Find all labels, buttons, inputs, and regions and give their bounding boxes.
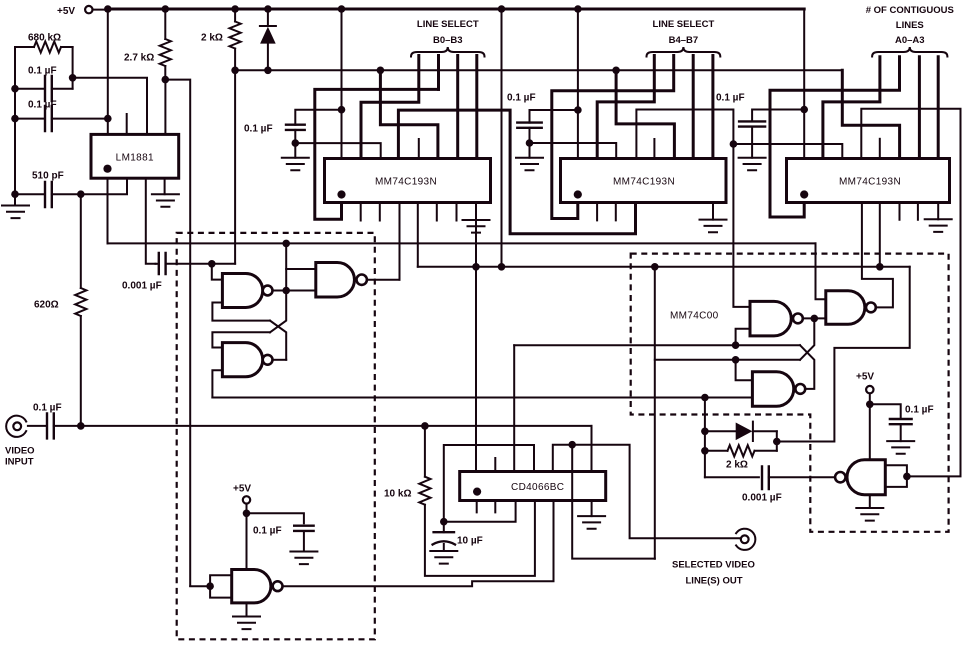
wire counter3 Q right edge <box>861 109 960 477</box>
ground bypass G7 <box>290 552 317 565</box>
wire counter3 pin to borrow <box>879 203 881 267</box>
pin counter1 stub top <box>418 139 420 159</box>
svg-text:A0–A3: A0–A3 <box>895 35 925 46</box>
capacitor C bypass1 <box>286 110 342 158</box>
wire G7 tied inputs <box>206 575 231 597</box>
wire loop1 B1 to pin <box>315 89 439 219</box>
wire ctl pins <box>440 445 534 526</box>
wire counter2 vcc drop <box>574 9 582 159</box>
ground bypass1 <box>282 158 309 171</box>
ground counter2 <box>700 220 727 233</box>
ic U5 CD4066BC <box>460 472 606 501</box>
capacitor C bypass G7 <box>247 513 314 551</box>
wire 2k-diode drop <box>234 70 236 263</box>
wire A3 line <box>937 57 940 159</box>
svg-text:INPUT: INPUT <box>5 457 34 468</box>
wire borrow line <box>418 203 910 267</box>
wire HA staircase 2 <box>612 67 674 159</box>
wire G3 input A <box>212 332 270 347</box>
capacitor 10uF label <box>457 536 483 547</box>
ground counter1 <box>463 220 490 233</box>
nand gate G7 <box>232 570 283 603</box>
svg-text:0.1 µF: 0.1 µF <box>905 405 934 416</box>
wire 2.7k junction right <box>165 80 190 586</box>
label LINE SELECT 2 <box>653 19 715 30</box>
wire G1 input A <box>212 264 223 280</box>
svg-text:0.001 µF: 0.001 µF <box>122 281 162 292</box>
capacitor 510 pF label <box>32 171 64 182</box>
wire sync bus HA <box>235 69 842 71</box>
capacitor C 10uF electrolytic <box>433 522 455 551</box>
ic U4 MM74C193N <box>787 159 950 203</box>
wire video to pin <box>591 426 593 472</box>
wire B7 line <box>711 56 714 159</box>
capacitor C 0.1uF A <box>15 76 73 101</box>
svg-text:LINE SELECT: LINE SELECT <box>417 19 479 30</box>
svg-text:CD4066BC: CD4066BC <box>511 482 564 493</box>
capacitor 0.1uF label G8 <box>905 405 934 416</box>
capacitor 0.001uF label B <box>742 493 782 504</box>
capacitor 0.1uF label B <box>28 100 57 111</box>
resistor R 10k <box>419 426 535 576</box>
wire G8 tied inputs <box>885 465 910 487</box>
bracket B4-B7 <box>647 47 721 57</box>
wire switch ctl drop <box>513 345 515 471</box>
pin LM1881 burst <box>146 178 156 264</box>
wire G5 input B <box>736 329 750 345</box>
svg-text:0.1 µF: 0.1 µF <box>716 93 745 104</box>
pin cd4066 stub top <box>494 458 496 472</box>
connector video output <box>736 529 755 550</box>
resistor 2 k&#937; label B <box>726 460 748 471</box>
svg-text:MM74C193N: MM74C193N <box>839 177 901 188</box>
wire G4 output <box>862 203 893 308</box>
label MM74C00 <box>670 311 719 322</box>
wire G7 input feed <box>190 585 210 587</box>
diode D2 <box>705 422 777 442</box>
wire G3 input B <box>212 370 222 397</box>
wire ctl feedback <box>572 445 655 559</box>
diode D1 <box>260 9 276 74</box>
wire rail drop x501 <box>501 9 503 267</box>
svg-text:LM1881: LM1881 <box>116 153 154 164</box>
wire G8 gnd <box>869 495 871 508</box>
wire G2 input A <box>286 268 316 270</box>
power +5V terminal right <box>856 372 874 405</box>
wire HA staircase 1 <box>377 67 438 159</box>
wire rlatch line upper <box>514 341 800 349</box>
wire B3 line <box>475 56 478 159</box>
capacitor 0.1uF label C3 <box>716 93 745 104</box>
ic U1 LM1881 <box>91 134 179 178</box>
resistor R 2.7k <box>160 9 171 83</box>
label LINES OUT <box>686 576 743 587</box>
svg-text:2 kΩ: 2 kΩ <box>726 460 748 471</box>
ground counter3 <box>925 219 952 232</box>
wire G7 gnd <box>246 603 248 617</box>
capacitor C bypass2 <box>517 110 578 158</box>
wire cd4066 gnd pin <box>591 501 593 517</box>
ground bypass2 <box>516 158 543 171</box>
wire to LM1881 pin <box>73 78 147 135</box>
svg-text:MM74C193N: MM74C193N <box>613 177 675 188</box>
svg-text:B0–B3: B0–B3 <box>433 35 463 46</box>
wire latch long line <box>212 394 752 402</box>
capacitor C 0.1uF B <box>15 106 112 131</box>
resistor 680 k&#937; label <box>28 33 61 44</box>
wire A0 line <box>823 57 880 159</box>
dashed box MM74C00 <box>631 254 949 532</box>
power +5V terminal bl <box>233 484 251 514</box>
pin cd4066 stubs bottom <box>477 501 496 513</box>
wire +5V rail <box>108 8 804 11</box>
dashed box latch left <box>177 233 375 639</box>
resistor 620&#937; label <box>34 300 59 311</box>
wire A2 line <box>918 57 921 159</box>
ground 10uF <box>430 551 457 564</box>
wire rail end drop <box>800 9 808 159</box>
wire G5 out to G4 <box>803 315 826 323</box>
wire 2.7k to LM1881 pin <box>164 80 166 135</box>
resistor 2 k&#937; label <box>201 33 223 44</box>
wire video line <box>77 422 592 430</box>
pin LM1881 top stub <box>126 114 128 134</box>
wire G6 input A <box>736 360 753 381</box>
capacitor 0.1uF label A <box>28 66 57 77</box>
svg-text:LINE(S) OUT: LINE(S) OUT <box>686 576 743 587</box>
wire LM1881 Vcc <box>107 9 109 134</box>
wire rlatch cross upper <box>800 318 814 359</box>
resistor R 680k <box>15 41 73 52</box>
wire latch cross upper <box>270 291 286 333</box>
wire G3 output <box>273 359 287 361</box>
svg-text:+5V: +5V <box>233 484 251 495</box>
resistor 10 k&#937; label <box>384 489 411 500</box>
wire G1 output <box>273 287 291 295</box>
capacitor C bypass3 <box>739 110 804 158</box>
wire left rail x15 <box>14 47 16 206</box>
capacitor 0.1uF label vid <box>33 403 62 414</box>
bracket B0-B3 <box>411 47 485 57</box>
svg-text:0.1 µF: 0.1 µF <box>253 526 282 537</box>
wire latch cross lower <box>270 321 286 360</box>
pin counter2 stub top <box>653 139 655 159</box>
label A0-A3 <box>895 35 925 46</box>
wire HA staircase 3 <box>842 70 899 158</box>
wire cap1 to pin <box>295 143 380 158</box>
svg-text:B4–B7: B4–B7 <box>669 35 699 46</box>
connector video input <box>6 416 26 437</box>
nand gate G6 <box>752 372 805 407</box>
ground left rail <box>2 206 29 219</box>
wire 510pF to LM1881 pin <box>81 178 127 194</box>
capacitor C 0.001uF B <box>705 467 835 490</box>
wire counter1 vcc drop <box>338 9 346 159</box>
svg-text:MM74C193N: MM74C193N <box>375 177 437 188</box>
ic U3 MM74C193N <box>561 159 727 203</box>
label CONTIGUOUS <box>866 5 954 16</box>
power +5V terminal <box>57 6 108 17</box>
wire B5 loop2 <box>552 56 674 219</box>
wire G2 input B <box>286 290 316 292</box>
bracket A0-A3 <box>872 47 947 57</box>
wire rlatch cross lower <box>800 345 814 389</box>
capacitor C bypass G8 <box>870 404 912 441</box>
svg-text:# OF CONTIGUOUS: # OF CONTIGUOUS <box>866 5 954 16</box>
resistor R 2k top <box>230 9 241 74</box>
wire G6B to network <box>701 398 709 478</box>
capacitor 0.1uF label C1 <box>244 124 273 135</box>
ground LM1881 <box>152 194 179 207</box>
nand gate G5 <box>750 301 803 336</box>
svg-text:LINE SELECT: LINE SELECT <box>653 19 715 30</box>
wire counter2 Q to G5 <box>636 110 750 307</box>
wire G2 out to pin <box>399 203 401 280</box>
capacitor 0.1uF label G7 <box>253 526 282 537</box>
capacitor C video in <box>28 413 81 438</box>
pin counter2 stubs bottom <box>597 203 616 221</box>
resistor 2.7 k&#937; label <box>124 53 154 64</box>
svg-text:0.1 µF: 0.1 µF <box>33 403 62 414</box>
wire G4 input A <box>816 243 826 299</box>
pin counter3 stub top <box>879 139 881 159</box>
wire 680k right leg <box>69 47 77 89</box>
wire borrow right end <box>773 267 910 446</box>
svg-text:0.1 µF: 0.1 µF <box>507 93 536 104</box>
svg-text:0.1 µF: 0.1 µF <box>244 124 273 135</box>
nand gate G4 <box>826 291 876 325</box>
node g7 vcc <box>243 510 251 570</box>
wire B0 line <box>361 56 419 159</box>
label B0-B3 <box>433 35 463 46</box>
wire G1 input B <box>212 303 270 321</box>
wire counter2 gnd pin <box>712 203 714 220</box>
ground G7 <box>233 617 260 630</box>
resistor R 620 <box>75 194 86 426</box>
capacitor 0.001uF label A <box>122 281 162 292</box>
wire counter1 gnd pin <box>475 203 477 472</box>
wire counter3 gnd pin <box>937 203 939 220</box>
label SELECTED VIDEO <box>672 560 755 571</box>
nand gate G1 <box>222 274 272 308</box>
svg-text:2 kΩ: 2 kΩ <box>201 33 223 44</box>
wire G7 output <box>283 501 554 587</box>
wire counter1 carry out <box>398 110 635 234</box>
svg-text:2.7 kΩ: 2.7 kΩ <box>124 53 154 64</box>
svg-text:LINES: LINES <box>896 20 924 31</box>
svg-text:0.001 µF: 0.001 µF <box>742 493 782 504</box>
wire ctl to pin2 <box>444 501 516 522</box>
wire carry bus drop <box>654 267 656 559</box>
ground bypass G8 <box>887 441 914 454</box>
resistor R 2k bottom <box>705 442 777 457</box>
svg-text:10 kΩ: 10 kΩ <box>384 489 411 500</box>
wire B6 line <box>692 56 695 159</box>
wire B2 line <box>456 56 459 159</box>
wire A1 loop3 <box>770 57 900 217</box>
wire LM1881 pin to gnd <box>164 178 166 194</box>
svg-text:510 pF: 510 pF <box>32 171 64 182</box>
nand gate G3 <box>222 343 272 377</box>
node rail junctions <box>104 5 582 13</box>
wire rlatch line lower <box>655 356 800 364</box>
wire B4 line <box>597 56 654 159</box>
svg-text:10 µF: 10 µF <box>457 536 483 547</box>
svg-text:620Ω: 620Ω <box>34 300 59 311</box>
pin counter3 stubs bottom <box>900 203 918 220</box>
label B4-B7 <box>669 35 699 46</box>
nand gate G2 <box>316 263 367 298</box>
svg-text:+5V: +5V <box>856 372 874 383</box>
svg-text:MM74C00: MM74C00 <box>670 311 719 322</box>
node x15 junctions <box>11 85 19 198</box>
label INPUT <box>5 457 34 468</box>
svg-text:SELECTED VIDEO: SELECTED VIDEO <box>672 560 755 571</box>
wire cap3dot to pin <box>733 144 842 159</box>
capacitor C 0.001uF A <box>156 253 236 274</box>
pin LM1881 csync out <box>107 178 109 243</box>
label VIDEO <box>5 446 35 457</box>
svg-text:VIDEO: VIDEO <box>5 446 35 457</box>
node borrow junctions <box>472 263 883 271</box>
wire csync line <box>108 240 816 248</box>
ground G8 <box>856 508 883 521</box>
label LINES <box>896 20 924 31</box>
capacitor 0.1uF label C2 <box>507 93 536 104</box>
svg-text:+5V: +5V <box>57 6 75 17</box>
wire csync to G2 <box>285 243 287 290</box>
ground bypass3 <box>739 158 766 171</box>
capacitor C 510pF <box>15 182 85 207</box>
wire cap2 to pin <box>530 143 617 159</box>
pin counter1 stubs bottom <box>361 203 457 221</box>
wire G2 output <box>367 279 400 281</box>
label LINE SELECT 1 <box>417 19 479 30</box>
wire switch out <box>553 441 740 538</box>
ground cd4066 <box>578 516 605 529</box>
nand gate G8 <box>835 460 885 495</box>
wire B1 line <box>437 56 440 90</box>
ic U2 MM74C193N <box>325 159 491 203</box>
node g8 vcc <box>866 401 874 460</box>
